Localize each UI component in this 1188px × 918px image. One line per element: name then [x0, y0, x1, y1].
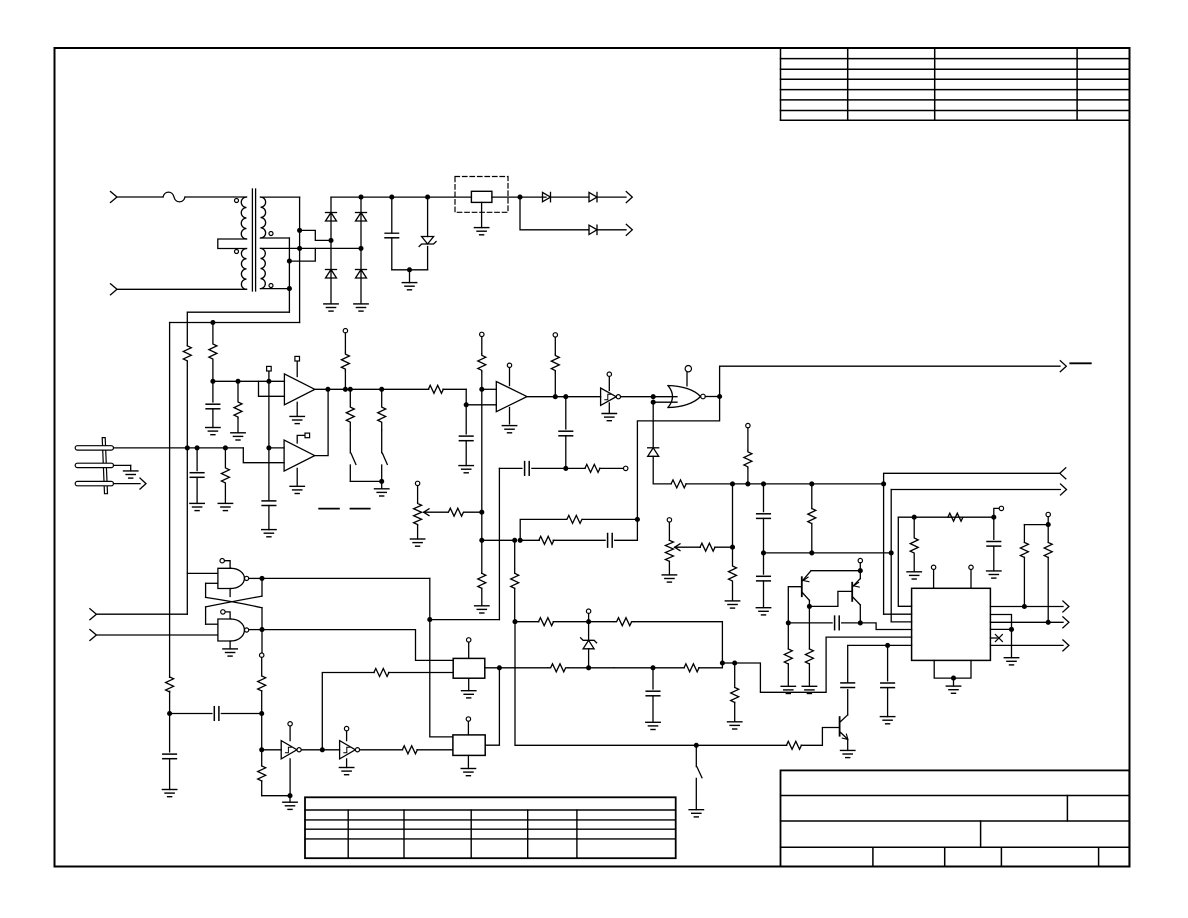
wire: [360, 197, 362, 304]
node: [297, 228, 302, 233]
power terminal: [346, 731, 348, 741]
resistor R1: [183, 346, 191, 362]
node: [809, 481, 814, 486]
wire: [170, 713, 212, 715]
wire: [389, 672, 454, 674]
input port J2 (AC line 2): [111, 284, 118, 295]
wire: [430, 619, 500, 621]
node: [720, 660, 725, 665]
wire: [597, 229, 626, 231]
wire (to box1 LED): [322, 673, 374, 750]
ground: [262, 529, 276, 531]
power terminal: [686, 372, 688, 386]
wire: [883, 484, 885, 614]
port arrow (pin3): [114, 483, 141, 485]
wire: [1024, 524, 1048, 526]
net dash: [351, 508, 370, 510]
wire: [213, 380, 269, 382]
wire: [117, 196, 163, 198]
resistor R30: [448, 508, 464, 516]
capacitor C5: [465, 405, 467, 434]
wire: [520, 197, 589, 230]
diode D1: [326, 212, 337, 214]
node: [210, 379, 215, 384]
diode D5: [543, 192, 551, 201]
resistor R17: [910, 517, 918, 572]
resistor R13: [729, 547, 737, 601]
output port (V2): [626, 224, 632, 235]
output port: [1063, 617, 1069, 628]
diode D8: [648, 447, 659, 449]
wire (U3 out up): [315, 389, 328, 455]
wire: [429, 578, 431, 737]
wire: [221, 713, 261, 715]
node: [328, 238, 333, 243]
capacitor C16: [841, 682, 855, 684]
wire (mid rail): [686, 483, 884, 485]
power terminal: [608, 376, 610, 390]
node: [512, 619, 517, 624]
capacitor C4: [262, 500, 276, 502]
ground: [162, 789, 176, 791]
resistor R23: [261, 657, 263, 676]
node: [586, 619, 591, 624]
wire (step to CT rail): [289, 248, 315, 261]
node: [517, 195, 522, 200]
output port: [1061, 484, 1067, 495]
node: [358, 195, 363, 200]
transistor Q2: [851, 583, 853, 601]
wire: [269, 447, 284, 449]
wire: [615, 519, 638, 540]
switch SW3: [695, 745, 697, 766]
node: [912, 515, 917, 520]
ground: [662, 574, 676, 576]
node: [807, 604, 812, 609]
resistor R24 (left bus): [166, 677, 174, 692]
node: [586, 665, 591, 670]
wire: [185, 196, 247, 198]
wire: [261, 578, 263, 596]
resistor R28: [548, 664, 568, 672]
zener diode Z1: [427, 197, 429, 236]
node: [287, 793, 292, 798]
input port: [90, 630, 97, 641]
wire: [699, 663, 723, 668]
ground: [409, 270, 411, 283]
node: [885, 643, 890, 648]
ground: [1004, 657, 1018, 659]
wire: [249, 577, 262, 579]
resistor R25: [261, 750, 263, 766]
wire (to U2 inverting input): [259, 381, 285, 396]
ground: [206, 427, 220, 429]
node: [651, 400, 656, 405]
wire: [811, 570, 860, 572]
wire: [417, 749, 453, 751]
wire: [551, 196, 590, 198]
wire: [186, 361, 188, 448]
ground: [509, 408, 511, 424]
wire: [261, 196, 300, 198]
capacitor C10: [993, 517, 995, 539]
connector pin 3: [75, 481, 113, 485]
node: [1022, 604, 1027, 609]
wire (cross-couple 1): [206, 597, 262, 607]
wire (U11 out): [485, 667, 548, 669]
node: [858, 568, 863, 573]
node: [320, 747, 325, 752]
node: [1046, 522, 1051, 527]
transformer T1 primary winding 2: [241, 249, 246, 290]
ground: [237, 418, 239, 433]
ground: [190, 502, 204, 504]
wire: [705, 396, 719, 398]
wire: [262, 749, 282, 751]
capacitor C8: [763, 484, 765, 512]
resistor R12: [671, 480, 686, 488]
wire: [269, 380, 285, 382]
regulator U1: [471, 191, 492, 202]
wire: [205, 607, 207, 624]
ground: [781, 685, 795, 687]
input port: [1060, 468, 1066, 479]
no-connect pin: [990, 637, 997, 639]
wire: [261, 288, 290, 290]
wire: [848, 645, 912, 683]
node: [235, 379, 240, 384]
IC U7: [912, 588, 991, 660]
resistor R21: [787, 623, 789, 649]
terminal (pin): [970, 570, 972, 589]
node: [425, 195, 430, 200]
wire: [553, 539, 605, 541]
wire (bus 3): [898, 517, 911, 606]
wire (step to D1 junction): [300, 230, 331, 240]
connector pin 2: [75, 463, 113, 467]
ground: [459, 465, 473, 467]
regulator dashed outline: [455, 177, 508, 213]
power square: [297, 435, 305, 443]
terminal: [1046, 512, 1050, 516]
node: [348, 387, 353, 392]
wire: [261, 630, 263, 653]
wire (IC out 2): [990, 621, 1063, 623]
wire: [732, 484, 734, 547]
wire: [722, 662, 734, 664]
wire (SET input): [96, 613, 187, 615]
node: [427, 617, 432, 622]
wire (upper R path): [520, 519, 566, 540]
node: [512, 538, 517, 543]
wire: [261, 714, 263, 750]
wire: [299, 197, 301, 322]
ground: [646, 721, 660, 723]
wire: [262, 795, 290, 797]
wire: [186, 448, 188, 614]
wire (to IC pin): [884, 613, 912, 615]
ground: [725, 600, 739, 602]
ground: [381, 481, 383, 488]
capacitor C17: [887, 645, 889, 680]
wire: [990, 615, 1011, 658]
wire (IC out 1): [990, 606, 1063, 608]
ground: [880, 716, 894, 718]
wire (Q1 collector): [808, 600, 810, 606]
wire: [482, 388, 497, 390]
ground stub: [229, 589, 231, 597]
wire: [268, 381, 270, 501]
ground: [907, 571, 921, 573]
ground (pin2): [114, 464, 131, 466]
node: [991, 515, 996, 520]
resistor R9 (pull-up): [480, 332, 484, 336]
terminal: [260, 653, 264, 657]
wire: [764, 552, 892, 554]
node: [479, 510, 484, 515]
node: [266, 445, 271, 450]
wire (Q1 base): [788, 587, 802, 623]
node: [553, 394, 558, 399]
node: [694, 743, 699, 748]
wire (U8A in2): [206, 582, 218, 584]
wire: [117, 288, 247, 290]
wire: [381, 430, 383, 453]
ground: [481, 202, 483, 227]
wire: [301, 749, 339, 751]
node: [563, 466, 568, 471]
op-amp U3: [284, 440, 315, 471]
ground: [802, 685, 816, 687]
output port: [1063, 601, 1069, 612]
polarity dot: [269, 232, 273, 236]
node: [809, 550, 814, 555]
resistor R36: [614, 618, 634, 626]
wire: [788, 622, 832, 624]
capacitor C14: [652, 668, 654, 689]
ground: [467, 755, 469, 768]
wire (Q3 emitter): [847, 739, 849, 750]
wire (U12 out): [485, 668, 499, 745]
node: [195, 445, 200, 450]
ground: [218, 502, 232, 504]
input port J1 (AC line 1): [111, 192, 118, 203]
resistor R27: [402, 746, 417, 754]
resistor R3: [234, 381, 242, 418]
transformer T1 secondary winding 1: [261, 197, 266, 238]
node: [287, 286, 292, 291]
resistor R37: [734, 663, 736, 687]
resistor R4 (pull-up): [343, 329, 347, 333]
schmitt inverter U9: [281, 741, 297, 759]
node: [479, 387, 484, 392]
switch SW1: [351, 453, 356, 464]
revision table (top right): [781, 58, 1129, 60]
comparator U4: [496, 382, 527, 412]
diode D7: [589, 225, 597, 234]
resistor R18: [948, 513, 963, 521]
wire: [898, 516, 994, 518]
capacitor C6: [565, 397, 567, 429]
terminal: [624, 466, 628, 470]
power square: [268, 371, 270, 381]
node: [223, 445, 228, 450]
parts table (bottom center): [305, 797, 676, 858]
capacitor C1: [391, 197, 393, 233]
wire: [350, 480, 381, 482]
input port: [90, 609, 97, 620]
wire (long left bus): [169, 323, 171, 678]
resistor R35: [539, 618, 554, 626]
connector J3 body: [102, 438, 107, 494]
resistor R10 (pull-up): [553, 333, 557, 337]
terminal: [994, 508, 1000, 517]
node: [358, 246, 363, 251]
transformer T1 primary winding 1: [241, 197, 246, 239]
wire: [715, 546, 733, 548]
wire (to IC): [860, 623, 911, 630]
resistor R26: [374, 669, 389, 677]
wire: [360, 749, 403, 751]
node: [651, 394, 656, 399]
resistor R32 (divider gnd): [481, 572, 483, 574]
wire (secondary CT rail): [261, 247, 362, 249]
capacitor C12: [213, 707, 215, 721]
node: [717, 394, 722, 399]
wire (to Q3 base run): [515, 622, 696, 746]
optocoupler U11: [453, 658, 485, 678]
wire (RV1 wiper line): [424, 511, 449, 513]
ground: [296, 468, 298, 485]
wire (Q2 emitter): [859, 571, 861, 579]
ground: [756, 607, 770, 609]
ground: [468, 678, 470, 691]
power terminal: [289, 726, 291, 741]
trimmer RV2: [667, 518, 671, 522]
wire (to IC pin): [891, 621, 911, 623]
wire (U8A out run): [262, 577, 430, 579]
diode D2: [326, 269, 337, 271]
resistor R2: [209, 323, 217, 382]
node: [518, 538, 523, 543]
resistor R5: [346, 389, 354, 430]
wire: [566, 467, 585, 469]
node: [325, 387, 330, 392]
wire (RESET input): [96, 634, 217, 636]
wire (feedback vertical): [498, 468, 500, 619]
ground: [608, 403, 610, 413]
node: [881, 481, 886, 486]
terminal: [468, 642, 470, 658]
resistor R8: [221, 448, 229, 504]
wire: [261, 237, 290, 239]
node: [379, 479, 384, 484]
resistor R22: [808, 606, 810, 649]
wire (U2 output): [315, 388, 429, 390]
wire: [464, 511, 482, 513]
node: [732, 660, 737, 665]
wire (to IC pin): [735, 637, 912, 692]
node: [259, 711, 264, 716]
output port (V+): [626, 192, 632, 203]
ground: [354, 303, 368, 305]
wire (U2out to U4-): [466, 389, 496, 405]
wire: [482, 539, 515, 541]
transformer T1 secondary winding 2: [261, 248, 266, 288]
wire (U8A in1): [187, 572, 218, 574]
wire: [890, 490, 892, 622]
resistor R20: [1047, 525, 1049, 543]
ground: [410, 538, 424, 540]
node: [786, 620, 791, 625]
output port: [1063, 640, 1069, 651]
node: [761, 550, 766, 555]
wire: [330, 197, 332, 304]
ground: [953, 678, 955, 686]
wire (primary tap U): [218, 239, 247, 249]
wire: [653, 396, 677, 398]
NAND gate U8B: [218, 619, 231, 641]
wire: [990, 628, 1011, 630]
op-amp U2: [284, 374, 314, 405]
terminal: [467, 721, 469, 735]
node: [379, 387, 384, 392]
wire: [532, 467, 566, 469]
output port: [1060, 361, 1066, 372]
wire (IC out 3): [990, 644, 1063, 646]
capacitor C3: [196, 448, 198, 471]
zener diode Z2: [588, 649, 590, 668]
schmitt inverter U5: [601, 388, 617, 405]
diode D6: [589, 192, 597, 201]
ground: [296, 402, 298, 416]
node: [730, 481, 735, 486]
node: [889, 550, 894, 555]
wire: [582, 518, 637, 520]
wire (cross-couple 2): [206, 596, 262, 607]
wire (U4 output): [527, 396, 601, 398]
resistor R16: [811, 484, 813, 509]
node: [1046, 620, 1051, 625]
fuse F1: [163, 192, 185, 202]
node: [210, 320, 215, 325]
ground: [346, 759, 348, 768]
optocoupler U12: [453, 735, 485, 756]
node (U8A out): [259, 576, 264, 581]
resistor R29: [684, 664, 699, 672]
node: [1009, 627, 1014, 632]
switch SW2: [382, 453, 387, 464]
node: [389, 195, 394, 200]
node: [730, 545, 735, 550]
ground: [728, 721, 742, 723]
wire: [331, 196, 471, 198]
resistor R33: [567, 515, 583, 523]
node: [287, 259, 292, 264]
ground: [283, 801, 297, 803]
title block (bottom right): [781, 770, 1130, 866]
wire (feedback): [499, 467, 522, 469]
wire: [249, 629, 262, 631]
resistor R38: [786, 741, 801, 749]
node: [650, 665, 655, 670]
power terminal: [509, 368, 511, 386]
net dash: [319, 508, 339, 510]
polarity dot: [269, 284, 273, 288]
NOR gate U6: [668, 386, 673, 408]
ground: [689, 809, 703, 811]
wire: [696, 744, 786, 746]
